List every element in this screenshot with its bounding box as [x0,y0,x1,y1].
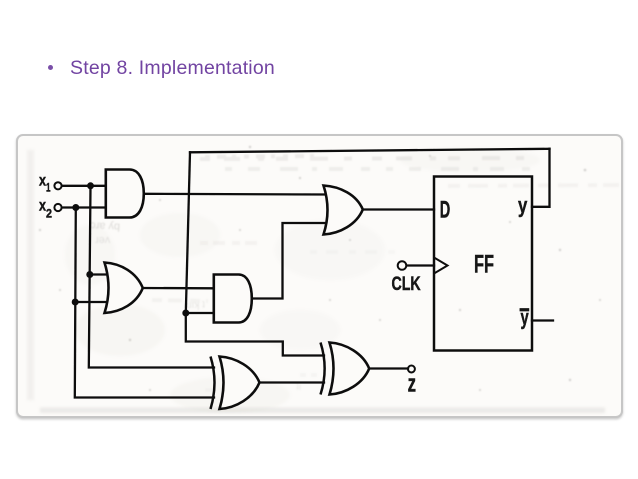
wire: x2 vertical down to XOR1 bottom input [75,208,214,398]
clock wedge on FF [434,258,448,274]
wire: AND2 output up to OR2 bottom input [252,223,328,299]
wire: OR2 output to FF D input [363,208,435,210]
wire: XOR1 output to XOR2 bottom input [259,381,324,383]
junction dot on x1 wire [87,182,94,189]
junction dot OR1 top input [86,271,93,278]
junction dot on x2 wire [72,204,79,211]
xor-gate XOR2 input arc [321,343,325,395]
terminal circle x2 [54,204,61,211]
and-gate AND2 ((x1+x2)·y) [214,275,252,323]
terminal circle x1 [54,182,61,189]
svg-text:z: z [408,371,416,398]
bullet point [48,65,53,70]
or-gate OR1 (x1+x2) [105,263,143,314]
svg-text:FF: FF [474,251,494,279]
wire: junction to AND2 bottom input [186,312,214,314]
svg-text:CLK: CLK [392,274,421,295]
wire: OR1 output to AND2 top input [143,287,215,290]
xor-gate XOR1 body (x1 xor x2) [220,357,260,410]
wire: x1 branch to OR1 top input [90,273,108,275]
scanned figure frame [16,134,623,418]
wire: y-bar output stub [532,319,553,321]
wire: x2 branch to OR1 bottom input [75,301,108,303]
or-gate OR2 (D input) [324,186,363,235]
wire: x2 input to AND1 [62,206,106,208]
svg-text:1: 1 [46,180,51,194]
wire: x1 vertical down to XOR1 top input [89,186,214,368]
wire: feedback top horizontal [190,149,550,153]
junction dot AND2 bottom input [182,310,189,317]
wire: XOR2 output to z [369,367,409,369]
wire: feedback right vertical from y output [532,149,550,207]
wire: feedback left vertical x=190 down to AND2 junction [186,152,190,313]
junction dot OR1 bottom input [72,299,79,306]
svg-text:uıʞ ʇ: uıʞ ʇ [186,300,205,311]
svg-text:y: y [518,195,528,218]
wire: feedback continues down to XOR2 top input [186,313,324,356]
wire: CLK to FF [407,264,434,266]
flip-flop FF box [434,177,532,351]
wire: AND1 output to OR2 top input [143,193,327,196]
wire: x1 input to AND1 [62,185,106,187]
xor-gate XOR2 body (z output) [330,343,370,395]
svg-text:2: 2 [46,207,52,221]
terminal circle z [408,366,415,373]
title text [70,57,275,80]
xor-gate XOR1 input arc [211,357,215,410]
terminal circle CLK [398,261,407,270]
overline for y-bar [520,308,529,311]
and-gate AND1 (x1·x2) [106,170,144,218]
svg-text:D: D [440,196,451,223]
